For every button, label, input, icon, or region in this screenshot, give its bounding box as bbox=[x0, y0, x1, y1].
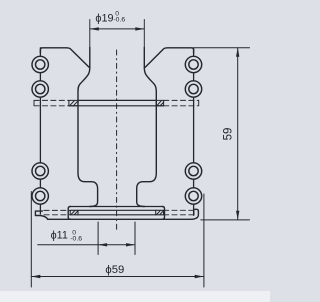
bottom edge full width bbox=[48, 218, 191, 220]
dimension 59: dim line bbox=[237, 48, 239, 220]
rivet circles: right upper pair bbox=[185, 56, 201, 72]
pan left lip bbox=[35, 211, 48, 219]
center line (vertical dash-dot) bbox=[116, 50, 118, 231]
part outline: top flange left half bbox=[40, 48, 89, 68]
top band hatched section box left bbox=[69, 100, 78, 105]
top band hidden dashed lines left bbox=[34, 100, 69, 105]
dimension phi19 arrows bbox=[90, 27, 145, 30]
right side plate vertical line bbox=[193, 48, 195, 215]
pan right lip bbox=[190, 209, 199, 219]
dimension phi11 arrows bbox=[98, 243, 135, 246]
rivet circles: left lower pair bbox=[32, 163, 48, 179]
bottom plate hidden dashed lines right bbox=[164, 210, 194, 215]
svg-text:ϕ11: ϕ11 bbox=[51, 230, 68, 242]
svg-text:-0.6: -0.6 bbox=[70, 236, 82, 243]
neck right side + bead + ogee + body side (right) bbox=[143, 20, 145, 49]
top band plate lines solid center bbox=[69, 100, 164, 105]
dimension phi11: extension lines bbox=[98, 222, 135, 255]
dimension phi59: extension lines bbox=[31, 192, 204, 288]
rivet circles: right lower pair bbox=[185, 163, 201, 179]
bottom plate hatched section box right bbox=[156, 210, 164, 215]
bottom flange right step bbox=[162, 207, 164, 220]
top band hidden dashed lines right bbox=[164, 100, 199, 105]
dimension phi59: dim line bbox=[31, 276, 203, 278]
svg-text:59: 59 bbox=[223, 128, 235, 141]
bottom plate lines solid center bbox=[78, 210, 156, 215]
dimension phi11: dim line with left leader bbox=[38, 244, 135, 246]
bottom white strip bbox=[0, 291, 270, 302]
bottom flange top surface line bbox=[70, 206, 162, 208]
svg-text:ϕ19: ϕ19 bbox=[95, 13, 113, 25]
rivet circles: outer+inner rings, left upper pair bbox=[32, 56, 202, 204]
bottom plate hidden dashed lines left bbox=[44, 210, 70, 214]
dimension phi19: extension+dim line bbox=[90, 28, 145, 30]
neck left side + bead + ogee + body side (left) bbox=[89, 20, 91, 49]
left side plate vertical line bbox=[39, 48, 41, 214]
top band hatched section box right bbox=[156, 100, 163, 105]
svg-text:ϕ59: ϕ59 bbox=[105, 264, 124, 276]
bottom plate hatched section box left bbox=[70, 210, 78, 215]
dimension 59 arrows bbox=[236, 48, 239, 220]
dimension 59 right: extension lines bbox=[195, 48, 250, 220]
dimension phi59 arrows bbox=[31, 275, 203, 278]
bottom flange left step bbox=[68, 207, 70, 220]
part outline: top flange right half bbox=[145, 48, 193, 68]
dimension text phi19 0/-0.6 bbox=[51, 10, 235, 275]
svg-text:-0.6: -0.6 bbox=[113, 17, 125, 24]
